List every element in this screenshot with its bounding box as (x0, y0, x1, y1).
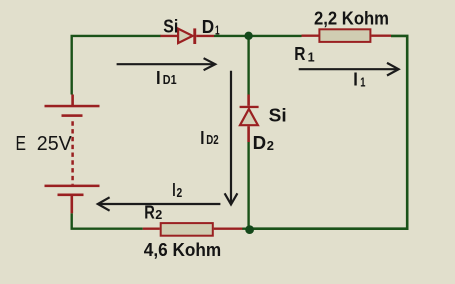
arrow I2 (current direction bottom branch, pointing left) (99, 203, 220, 205)
wire: top wire D1 to R1 left lead (through node A) (214, 35, 302, 37)
wire: R1 right red lead (371, 35, 391, 37)
node B (bottom junction dot) (245, 225, 254, 234)
svg-text:D1: D1 (163, 72, 177, 87)
svg-text:2: 2 (177, 185, 183, 200)
wire: D1 right red lead (196, 35, 214, 37)
battery E cell2 short plate (58, 194, 84, 197)
svg-text:25V: 25V (37, 133, 73, 155)
svg-text:2: 2 (267, 138, 274, 153)
arrow I1 (current direction right branch) (299, 68, 398, 70)
svg-text:R: R (294, 44, 305, 64)
svg-text:D: D (253, 133, 267, 153)
svg-text:4,6 Kohm: 4,6 Kohm (144, 240, 221, 260)
wire: D1 left red lead (160, 35, 178, 37)
battery E dashed middle link (71, 121, 74, 184)
wire: bottom-left green (R2 left lead to battery bottom) (72, 213, 143, 228)
svg-text:R: R (144, 203, 155, 223)
svg-text:2: 2 (155, 207, 162, 222)
wire: top-left green loop (left rail top + top wire to D1) (72, 36, 161, 95)
svg-text:I: I (200, 128, 204, 148)
svg-text:Si: Si (269, 105, 287, 125)
wire: right rail (R1 right to bottom-right corner to node B) (252, 36, 407, 229)
wire: D2 branch lower green segment (247, 142, 249, 229)
svg-text:2,2 Kohm: 2,2 Kohm (314, 8, 389, 28)
battery E cell1 long plate (45, 105, 100, 108)
svg-text:I: I (156, 68, 161, 88)
diode D1 cathode bar (193, 28, 196, 44)
wire: D2 branch upper green segment (247, 36, 249, 95)
wire: R2 right red lead (214, 227, 243, 229)
diode D2 triangle (pointing up) (240, 109, 258, 125)
diode D2 cathode bar (240, 106, 259, 108)
arrow ID2 (current direction middle branch, pointing down) (230, 71, 232, 203)
diode D1 triangle (178, 29, 193, 43)
svg-text:1: 1 (308, 49, 315, 64)
svg-text:1: 1 (360, 75, 365, 90)
wire: battery bottom red stub (71, 196, 74, 213)
svg-text:E: E (16, 133, 27, 155)
battery E cell2 long plate (45, 185, 100, 188)
resistor R1 body (319, 29, 370, 42)
svg-text:1: 1 (215, 22, 220, 37)
svg-text:I: I (353, 70, 358, 90)
wire: D2 bottom red lead (247, 126, 250, 142)
resistor R2 body (161, 223, 213, 236)
battery E cell1 short plate (62, 114, 83, 117)
wire: D2 top red lead (247, 95, 250, 106)
arrow ID1 (current direction top branch) (117, 63, 214, 65)
wire: R1 left red lead (302, 35, 319, 37)
wire: R2 left red lead (143, 227, 160, 229)
svg-text:D2: D2 (206, 132, 218, 147)
node A (top junction dot) (244, 32, 252, 40)
wire: battery top red stub (71, 95, 74, 106)
wire: bottom green segment between R2 lead and node B (242, 227, 252, 229)
svg-text:Si: Si (163, 16, 178, 36)
svg-text:I: I (172, 180, 175, 200)
svg-text:D: D (202, 17, 214, 37)
